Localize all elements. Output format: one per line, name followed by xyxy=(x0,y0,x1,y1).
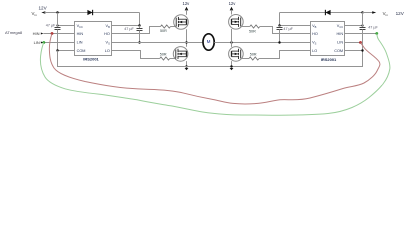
svg-text:HIN: HIN xyxy=(33,31,40,36)
wire VB pin line right xyxy=(280,25,311,27)
wire COM pin line right xyxy=(345,50,363,52)
ground arrow right xyxy=(230,68,234,70)
wire green jumper LIN-left to HIN-right xyxy=(40,34,390,116)
ground bus xyxy=(58,51,363,67)
port HIN left xyxy=(33,31,44,36)
wire red jumper HIN-left to LIN-right xyxy=(49,34,380,104)
wire drain-source vertical left bridge xyxy=(186,29,188,47)
svg-text:M: M xyxy=(207,39,211,44)
node bootstrap-VS junction right xyxy=(278,41,280,43)
wire Vin arrow right xyxy=(363,11,377,14)
node junction top-left xyxy=(56,11,58,13)
svg-text:47 µF: 47 µF xyxy=(46,23,56,27)
motor M1 xyxy=(203,34,214,50)
svg-text:LIN: LIN xyxy=(77,41,83,45)
wire HO path right xyxy=(260,27,311,34)
svg-text:LO: LO xyxy=(105,49,110,53)
ground arrow left xyxy=(185,68,189,70)
wire source to ground bus left xyxy=(186,61,188,66)
svg-text:LIN: LIN xyxy=(34,40,40,45)
transistor Q4 lower-right MOSFET xyxy=(229,47,244,62)
op-amp U1 IRS2001 left driver xyxy=(75,22,112,56)
resistor R4 50R lower-right xyxy=(249,57,259,60)
svg-text:LO: LO xyxy=(312,49,317,53)
wire rail elbow down to VB right xyxy=(279,13,281,26)
svg-text:12V: 12V xyxy=(39,5,48,10)
node VB junction left xyxy=(138,24,140,26)
wire VS line right xyxy=(214,42,310,44)
resistor R2 50R lower-left xyxy=(160,57,170,60)
svg-text:LIN: LIN xyxy=(337,41,343,45)
transistor Q3 upper-right MOSFET xyxy=(229,14,244,29)
svg-text:47 µF: 47 µF xyxy=(368,26,378,30)
wire HIN pin line right xyxy=(345,33,378,35)
power 12v arrow upper-left xyxy=(183,1,191,15)
capacitor C4 decoupling right 47uF xyxy=(360,13,366,51)
wire source to ground bus right xyxy=(231,61,233,66)
node bridge midpoint right xyxy=(230,41,232,43)
svg-text:HO: HO xyxy=(104,32,110,36)
wire COM pin line left xyxy=(58,50,75,52)
diode D2 bootstrap right xyxy=(325,10,330,15)
op-amp U2 IRS2001 right driver xyxy=(311,22,345,56)
node VCC junction left xyxy=(56,24,58,26)
svg-text:47 µF: 47 µF xyxy=(283,27,293,31)
svg-text:HO: HO xyxy=(312,32,318,36)
wire drain-source vertical right bridge xyxy=(231,29,233,47)
transistor Q2 lower-left MOSFET xyxy=(173,47,188,62)
node green tap LIN xyxy=(42,41,45,44)
power 12v arrow upper-right xyxy=(229,1,237,15)
svg-text:50R: 50R xyxy=(250,52,257,56)
wire LIN line left xyxy=(43,42,74,44)
svg-text:IRS2001: IRS2001 xyxy=(321,57,337,62)
wire top rail right xyxy=(280,12,363,14)
svg-text:50R: 50R xyxy=(160,29,167,33)
node bridge midpoint left xyxy=(185,41,187,43)
svg-text:12v: 12v xyxy=(229,1,237,6)
node COM junction left xyxy=(56,49,58,51)
wire VCC pin line right xyxy=(345,25,363,27)
wire HO path left xyxy=(112,27,161,34)
svg-text:IRS2001: IRS2001 xyxy=(83,56,99,61)
wire gate to resistor upper-right xyxy=(241,26,250,28)
resistor R1 50R upper-left xyxy=(161,25,171,28)
wire resistor to gate upper-left xyxy=(171,26,177,28)
port LIN left xyxy=(34,40,44,45)
wire resistor to gate lower-left xyxy=(170,58,176,60)
svg-text:ATmega8: ATmega8 xyxy=(5,30,23,35)
node bootstrap-VS junction left xyxy=(138,41,140,43)
wire top rail left xyxy=(58,12,140,14)
node source-bus junction left xyxy=(185,65,187,67)
svg-text:50R: 50R xyxy=(160,52,167,56)
svg-text:12v: 12v xyxy=(183,1,191,6)
wire LIN pin line right xyxy=(345,42,361,44)
svg-text:47 µF: 47 µF xyxy=(124,27,134,31)
node VB junction right xyxy=(278,24,280,26)
svg-text:12V: 12V xyxy=(396,11,405,16)
svg-text:HIN: HIN xyxy=(77,32,84,36)
node green tap HIN right xyxy=(375,32,378,35)
wire VB pin line left xyxy=(112,25,140,27)
wire VS line left xyxy=(112,42,204,44)
wire gate to resistor lower-right xyxy=(241,58,249,60)
wire HIN line left xyxy=(43,33,74,35)
node source-bus junction right xyxy=(230,65,232,67)
node rail junction right xyxy=(361,11,363,13)
transistor Q1 upper-left MOSFET xyxy=(174,15,189,30)
svg-text:HIN: HIN xyxy=(337,32,344,36)
capacitor C3 bootstrap right 47uF xyxy=(277,26,283,43)
wire LO path left xyxy=(112,51,160,59)
resistor R3 50R upper-right xyxy=(250,25,260,28)
wire Vin arrow left xyxy=(41,11,45,14)
diode D1 bootstrap left xyxy=(87,10,92,15)
capacitor C2 bootstrap left 47uF xyxy=(137,26,143,43)
wire rail elbow down to VB left xyxy=(139,13,141,26)
svg-text:50R: 50R xyxy=(249,29,256,33)
capacitor C1 decoupling left 47uF xyxy=(55,13,61,67)
svg-text:COM: COM xyxy=(77,49,86,53)
node VCC junction right xyxy=(361,24,363,26)
wire LO path right xyxy=(259,51,311,59)
node COM junction right xyxy=(361,49,363,51)
wire VCC pin line left xyxy=(58,25,75,27)
node red tap LIN right xyxy=(359,41,362,44)
node red tap HIN xyxy=(51,32,54,35)
svg-text:COM: COM xyxy=(334,49,343,53)
